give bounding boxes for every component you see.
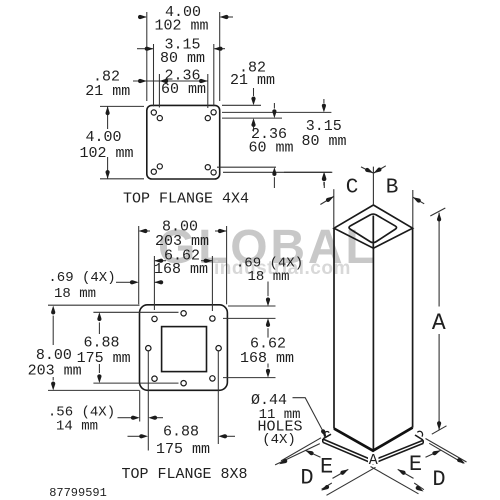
- svg-text:18 mm: 18 mm: [54, 286, 96, 302]
- svg-text:D: D: [432, 467, 445, 492]
- svg-text:21 mm: 21 mm: [230, 72, 275, 89]
- svg-text:(4X): (4X): [262, 432, 296, 448]
- svg-text:14 mm: 14 mm: [56, 419, 98, 435]
- svg-text:A: A: [369, 452, 378, 469]
- svg-text:203 mm: 203 mm: [28, 362, 82, 379]
- svg-text:102 mm: 102 mm: [79, 145, 133, 162]
- svg-text:E: E: [409, 452, 422, 477]
- svg-text:21 mm: 21 mm: [85, 83, 130, 100]
- svg-text:D: D: [300, 466, 313, 491]
- svg-text:18 mm: 18 mm: [247, 269, 289, 285]
- svg-text:6.88: 6.88: [83, 335, 119, 352]
- svg-text:60 mm: 60 mm: [161, 81, 206, 98]
- svg-text:B: B: [386, 176, 399, 199]
- svg-text:4.00: 4.00: [85, 129, 121, 146]
- svg-text:175 mm: 175 mm: [77, 350, 131, 367]
- svg-text:80 mm: 80 mm: [160, 50, 205, 67]
- svg-text:168 mm: 168 mm: [154, 261, 208, 278]
- svg-text:60 mm: 60 mm: [248, 140, 293, 157]
- svg-text:TOP FLANGE 4X4: TOP FLANGE 4X4: [123, 191, 249, 208]
- svg-text:80 mm: 80 mm: [301, 133, 346, 150]
- svg-text:168 mm: 168 mm: [240, 350, 294, 367]
- svg-text:6.88: 6.88: [163, 424, 199, 441]
- svg-text:TOP FLANGE 8X8: TOP FLANGE 8X8: [121, 466, 247, 483]
- svg-text:C: C: [346, 176, 359, 199]
- svg-text:175 mm: 175 mm: [156, 441, 210, 458]
- svg-text:87799591: 87799591: [49, 486, 107, 500]
- svg-text:A: A: [432, 310, 446, 336]
- svg-text:102 mm: 102 mm: [154, 18, 208, 35]
- svg-text:.69 (4X): .69 (4X): [48, 270, 115, 286]
- svg-text:E: E: [320, 454, 333, 479]
